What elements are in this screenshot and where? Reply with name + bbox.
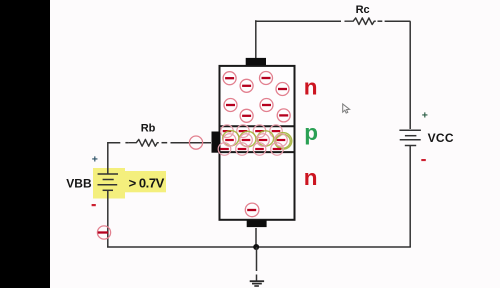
wire: dash before Rb <box>125 142 128 144</box>
wire: VBB top lead up and corner <box>108 143 121 174</box>
p region top border <box>220 125 295 127</box>
minus sign VCC <box>421 159 426 161</box>
ground symbol <box>250 281 264 286</box>
transistor body (n-p-n block) <box>220 66 295 220</box>
base contact tab <box>212 132 221 153</box>
emitter contact tab <box>247 220 267 227</box>
wire: down to ground <box>256 247 258 271</box>
svg-text:VBB: VBB <box>66 177 92 191</box>
mouse cursor <box>343 104 350 113</box>
minus sign VBB <box>92 204 96 206</box>
wire: top horizontal Rc to right corner <box>378 20 383 22</box>
svg-text:+: + <box>92 154 98 166</box>
electrons in upper n region <box>223 72 290 123</box>
electrons in p region row C <box>218 143 283 156</box>
collector contact tab <box>246 58 266 65</box>
green annotation circles in p region <box>222 130 293 151</box>
svg-text:n: n <box>304 75 318 100</box>
yellow highlight behind >0.7V <box>122 171 166 192</box>
electron on base wire <box>189 136 202 149</box>
wire: right vertical lower (VCC - to bottom rail) <box>409 146 411 247</box>
wire: bottom rail <box>107 246 411 248</box>
wire: Rb to base <box>162 142 168 144</box>
battery VCC <box>399 130 421 145</box>
wire: top horizontal to Rc <box>255 20 341 22</box>
resistor Rc <box>345 18 376 25</box>
letterbox bar <box>0 0 50 288</box>
electron in lower n region <box>245 203 259 217</box>
wire: right vertical upper (to VCC +) <box>409 21 411 129</box>
wire: collector lead up from transistor <box>255 20 257 58</box>
svg-text:> 0.7V: > 0.7V <box>129 175 165 190</box>
wire: emitter lead down to rail <box>255 228 257 247</box>
electrons in p region row B <box>223 134 287 147</box>
wire: VBB bottom lead down to bottom rail <box>107 191 109 248</box>
svg-text:VCC: VCC <box>428 131 454 145</box>
resistor Rb <box>129 139 159 146</box>
electron on left return wire <box>97 226 110 239</box>
svg-text:n: n <box>304 165 318 190</box>
junction node dot <box>253 244 259 250</box>
svg-text:Rc: Rc <box>356 4 370 16</box>
p region bottom border <box>220 151 295 153</box>
yellow highlight over VBB battery <box>93 168 125 199</box>
svg-text:+: + <box>422 109 428 121</box>
svg-text:Rb: Rb <box>141 123 156 135</box>
svg-text:p: p <box>304 120 318 145</box>
electrons in p region row A <box>221 125 283 138</box>
battery VBB <box>98 174 119 190</box>
